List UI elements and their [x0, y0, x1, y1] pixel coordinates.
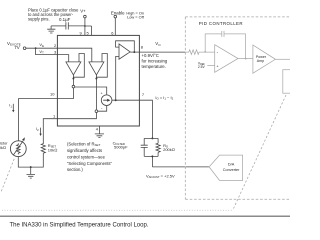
- wire thermal path right dashed: [234, 95, 287, 209]
- svg-text:10kΩ: 10kΩ: [0, 145, 6, 150]
- svg-text:IO = I1 − I2: IO = I1 − I2: [155, 95, 173, 101]
- wire: [68, 25, 85, 27]
- wire pin 1 to RSET: [43, 119, 57, 143]
- svg-text:for increasing: for increasing: [142, 59, 168, 64]
- wire power amp output: [275, 58, 290, 60]
- svg-text:supply pins.: supply pins.: [28, 17, 50, 22]
- Enable terminal: [111, 11, 125, 18]
- svg-text:0.1µF: 0.1µF: [59, 17, 71, 22]
- wire current source to pin 7: [112, 99, 139, 101]
- svg-text:10kΩ: 10kΩ: [48, 147, 58, 152]
- node feedback junction: [204, 51, 206, 53]
- resistor R PID input: [185, 50, 214, 55]
- svg-text:section.): section.): [67, 167, 83, 172]
- ground pin 4: [95, 134, 104, 138]
- wire A3 feedback: [116, 41, 135, 52]
- node U2 output: [245, 58, 247, 60]
- D/A converter block: [209, 155, 243, 180]
- wire A1 feedback loop: [73, 54, 84, 79]
- note: enable logic text: [126, 11, 144, 20]
- svg-text:control system—see: control system—see: [67, 154, 106, 159]
- wire filter rails: [144, 138, 158, 167]
- svg-text:Converter: Converter: [223, 168, 240, 172]
- wire thermal path left dashed: [1, 159, 14, 192]
- wire VO to PID: [139, 51, 185, 53]
- svg-text:Power: Power: [256, 55, 267, 59]
- note: RSET selection text: [67, 141, 113, 172]
- wire: [26, 47, 58, 49]
- node A2 output: [95, 78, 97, 80]
- switch S1: [72, 79, 75, 88]
- wire thermal path bottom dotted: [2, 209, 232, 211]
- node IO: [115, 99, 117, 101]
- svg-text:Low = Off: Low = Off: [127, 15, 145, 20]
- node ground junction: [30, 166, 32, 168]
- svg-text:“Selecting Components”: “Selecting Components”: [67, 161, 113, 166]
- V_EXCITE terminal: [7, 41, 26, 50]
- node A3 output: [133, 51, 135, 53]
- caption rule: [0, 216, 290, 218]
- switch S2: [95, 79, 98, 113]
- wire A2 feedback loop: [96, 54, 107, 79]
- ground thermistor: [27, 167, 36, 178]
- wire feedback: [205, 34, 245, 59]
- resistor RG: [156, 143, 175, 153]
- op-amp U1 INA330 box: [57, 35, 139, 126]
- wire S1 to pin 10: [57, 88, 73, 99]
- resistor RSET: [41, 143, 57, 154]
- ground (power supply bypass): [47, 26, 55, 33]
- current I2 arrow: [36, 127, 42, 136]
- svg-text:+0.9V/°C: +0.9V/°C: [142, 53, 159, 58]
- wire pin 7 to filter: [139, 100, 152, 138]
- wire: [51, 25, 66, 27]
- wire U2 output: [238, 58, 253, 60]
- svg-text:The INA330 in Simplified Tempe: The INA330 in Simplified Temperature Con…: [10, 222, 149, 228]
- svg-text:VO: VO: [155, 41, 161, 47]
- node filter top: [151, 137, 153, 139]
- amplifier A2: [89, 62, 104, 75]
- svg-text:temperature.: temperature.: [142, 64, 166, 69]
- current I1 arrow: [9, 104, 14, 113]
- amplifier A1: [66, 62, 81, 75]
- wire thermistor bottom rail: [18, 154, 43, 168]
- node VE/VT split: [35, 47, 37, 49]
- wire S1 to current source top: [75, 87, 107, 95]
- op-amp U3 power amp: [253, 45, 276, 73]
- svg-text:VT: VT: [39, 49, 44, 55]
- V+ terminal: [80, 9, 86, 18]
- svg-text:2.5V: 2.5V: [198, 65, 206, 69]
- op-amp U2 PID: [215, 45, 238, 73]
- capacitor C PID feedback: [222, 31, 224, 37]
- wire VREF to plus input: [207, 65, 214, 67]
- svg-text:7V: 7V: [14, 45, 19, 50]
- wire A3 output to pin 8: [130, 51, 139, 53]
- node filter bottom: [151, 155, 153, 157]
- svg-text:VADJUST = +2.5V: VADJUST = +2.5V: [146, 173, 175, 179]
- svg-text:VE: VE: [39, 42, 44, 48]
- svg-text:200kΩ: 200kΩ: [163, 147, 175, 152]
- svg-text:Amp: Amp: [257, 59, 264, 63]
- PID controller dashed box: [185, 17, 290, 199]
- svg-text:Enable: Enable: [111, 11, 125, 16]
- op-amp A3 output buffer: [119, 44, 130, 59]
- svg-text:(Selection of RSET: (Selection of RSET: [67, 141, 100, 147]
- wire VE to amp A2: [57, 48, 91, 62]
- svg-text:+: +: [101, 92, 103, 96]
- wire pin 4: [98, 126, 100, 134]
- note: 0.9V/C text: [142, 53, 168, 69]
- capacitor C1 0.1uF: [59, 17, 71, 30]
- node A1 output: [72, 78, 74, 80]
- node V+ junction: [84, 25, 86, 27]
- wire S2 to pin 1: [57, 113, 96, 119]
- wire: [84, 18, 86, 26]
- svg-text:D/A: D/A: [228, 163, 235, 167]
- capacitor CFILTER: [113, 140, 148, 149]
- note: place capacitor text: [28, 7, 79, 21]
- wire VT to amp A1: [57, 55, 68, 62]
- svg-text:PID CONTROLLER: PID CONTROLLER: [199, 21, 243, 26]
- wire pins 9 and 5: [85, 26, 92, 35]
- wire to DA converter: [152, 166, 209, 168]
- current source I1-I2: [101, 92, 112, 111]
- thermistor RTHERM: [0, 137, 26, 156]
- wire: [36, 48, 58, 54]
- svg-text:10: 10: [50, 92, 55, 97]
- TEC block: [283, 70, 295, 94]
- wire enable: [114, 18, 116, 36]
- svg-text:V+: V+: [80, 9, 86, 14]
- wire S2 to current source bottom: [98, 106, 107, 112]
- svg-text:significantly affects: significantly affects: [67, 148, 102, 153]
- svg-text:I2: I2: [36, 127, 39, 132]
- svg-text:5000pF: 5000pF: [114, 145, 128, 150]
- wire node to buffer input: [116, 56, 119, 100]
- wire pin 10 to thermistor: [19, 99, 58, 141]
- svg-text:I1: I1: [9, 104, 12, 109]
